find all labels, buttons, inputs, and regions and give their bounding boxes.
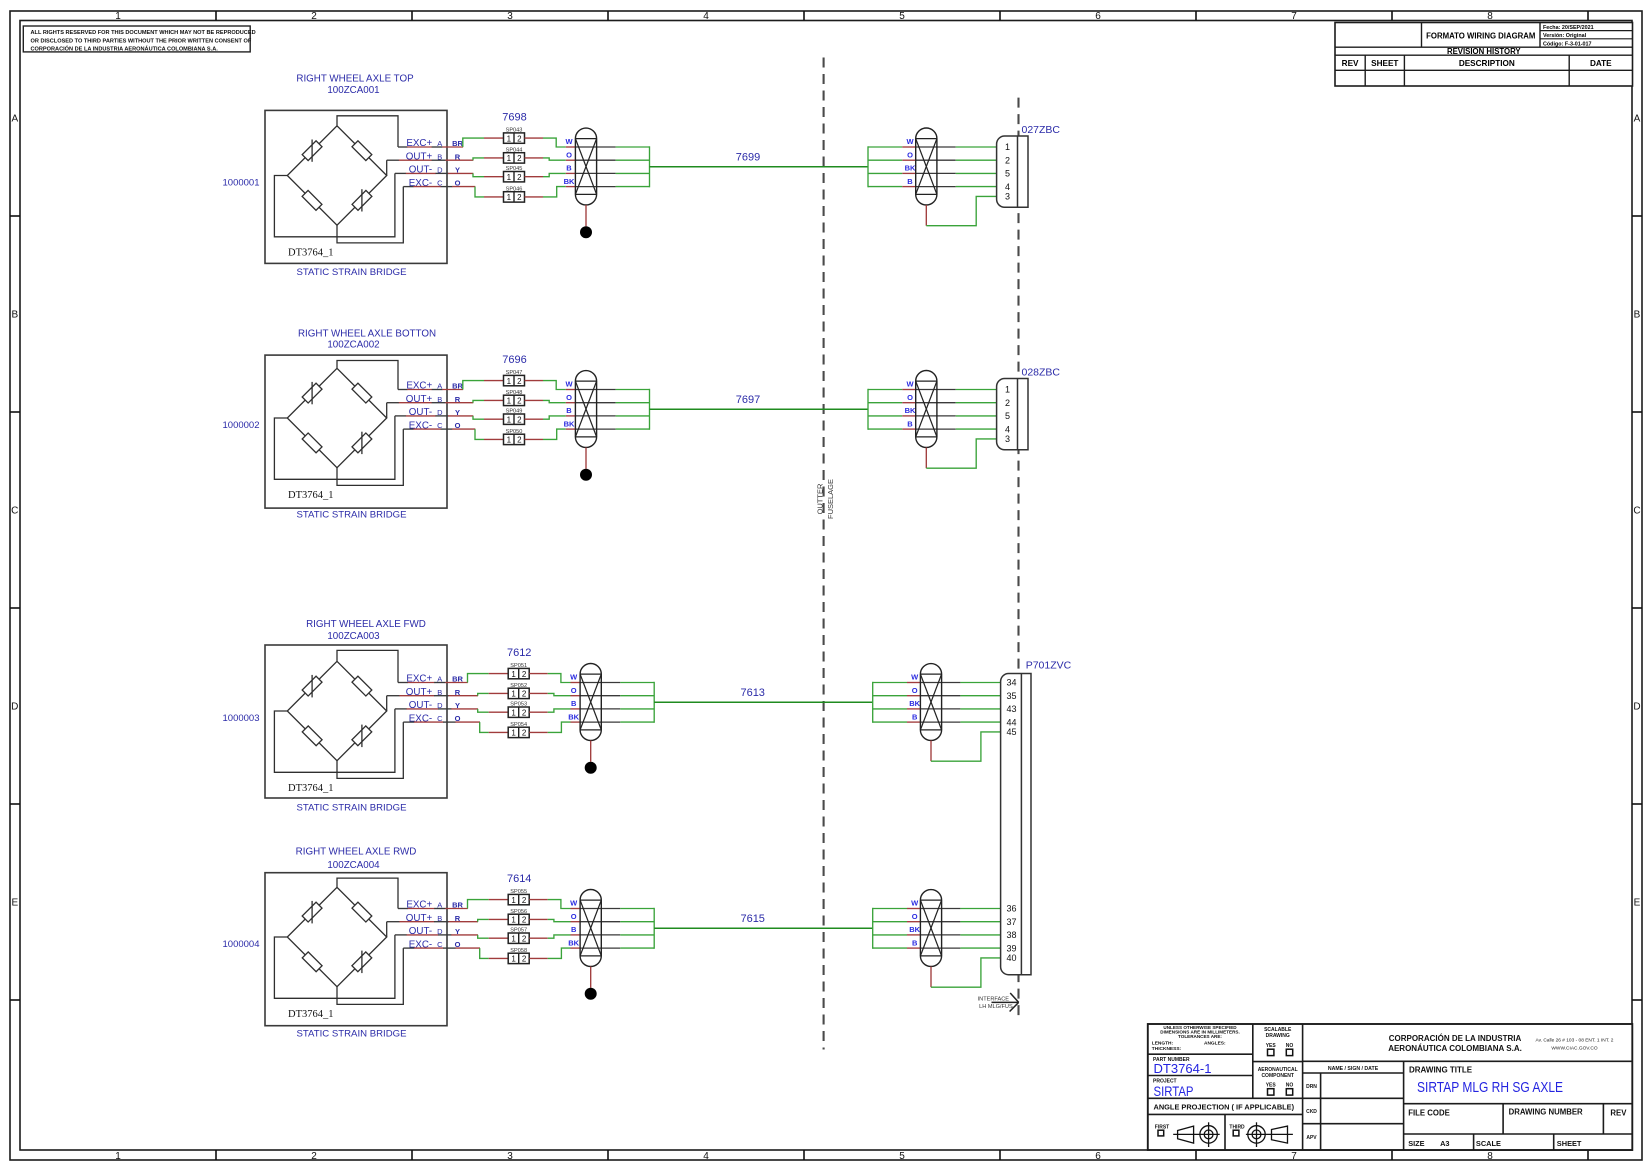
revision history table [1335, 23, 1633, 87]
svg-text:CKD: CKD [1306, 1109, 1317, 1115]
svg-text:028ZBC: 028ZBC [1022, 366, 1061, 378]
svg-text:7699: 7699 [736, 151, 760, 163]
svg-text:RIGHT WHEEL AXLE FWD: RIGHT WHEEL AXLE FWD [306, 619, 426, 630]
svg-text:5: 5 [899, 11, 905, 22]
svg-text:Versión: Original: Versión: Original [1543, 33, 1587, 39]
wheatstone bridge diamond [287, 368, 386, 467]
wire EXC+ pin A (BR) to splice SP055 [398, 900, 508, 909]
svg-text:2: 2 [311, 11, 317, 22]
svg-text:DRN: DRN [1306, 1084, 1317, 1090]
wire OUT+ from bridge right corner [386, 922, 388, 937]
strain gauge resistor R2 of 100ZCA002 [352, 383, 372, 403]
outer fuselage label [815, 479, 835, 519]
svg-text:7: 7 [1291, 11, 1297, 22]
equipment title 100ZCA002 [298, 329, 436, 351]
interface note LH MLG/FUS [978, 996, 1013, 1010]
splice SP046 [504, 186, 525, 202]
wire EXC+ from bridge top corner [337, 361, 398, 390]
wire EXC+ from bridge top corner [337, 878, 398, 908]
signal name labels EXC+/OUT+/OUT-/EXC- [406, 900, 464, 951]
wire B through left shield [580, 708, 654, 710]
svg-text:BK: BK [568, 938, 579, 947]
zone column numbers bottom [115, 1151, 1493, 1162]
svg-text:AERONÁUTICA COLOMBIANA S.A.: AERONÁUTICA COLOMBIANA S.A. [1388, 1044, 1522, 1053]
wire EXC- from bridge bottom corner [337, 429, 403, 485]
svg-text:B: B [571, 925, 577, 934]
svg-text:B: B [566, 406, 572, 415]
wire O through right shield to pin 2 [868, 159, 997, 161]
wire B through right shield to pin 4 [868, 186, 997, 188]
shield drain wire to ground [585, 205, 587, 226]
first angle projection symbol [1155, 1122, 1220, 1147]
strain gauge resistor R2 of 100ZCA004 [352, 902, 372, 922]
svg-text:100ZCA004: 100ZCA004 [327, 860, 380, 871]
svg-text:O: O [912, 912, 918, 921]
wire W through left shield [580, 682, 654, 684]
equipment title 100ZCA003 [306, 619, 426, 642]
svg-text:1: 1 [507, 173, 512, 182]
wire BK through right shield to pin 5 [868, 172, 997, 174]
wire W through right shield to pin 1 [868, 389, 997, 391]
svg-text:2: 2 [522, 955, 527, 964]
connector 028ZBC [997, 379, 1028, 450]
svg-text:SHEET: SHEET [1557, 1139, 1582, 1148]
svg-text:OUTTER: OUTTER [815, 483, 824, 514]
splice SP047 [504, 370, 525, 386]
wire splice SP046 to shield (BK) [525, 187, 576, 197]
svg-text:B: B [912, 938, 918, 947]
svg-text:1: 1 [511, 934, 516, 943]
wire colour labels at right shield [905, 380, 916, 429]
wire splice SP052 to shield (O) [529, 693, 580, 695]
svg-text:W: W [570, 673, 578, 682]
svg-text:1: 1 [507, 436, 512, 445]
svg-text:O: O [566, 393, 572, 402]
svg-text:DESCRIPTION: DESCRIPTION [1459, 59, 1515, 68]
svg-text:P701ZVC: P701ZVC [1026, 659, 1072, 671]
svg-text:DRAWING TITLE: DRAWING TITLE [1409, 1065, 1473, 1074]
wire O through left shield [580, 695, 654, 697]
svg-text:SIZE: SIZE [1408, 1139, 1424, 1148]
svg-text:6: 6 [1095, 1151, 1101, 1162]
strain gauge resistor R1 of 100ZCA002 [302, 382, 322, 404]
svg-text:2: 2 [1005, 398, 1010, 408]
svg-text:YES: YES [1266, 1082, 1277, 1088]
svg-text:SCALE: SCALE [1476, 1139, 1501, 1148]
cable shield symbol (right) of 7613 [920, 664, 941, 741]
wire W through right shield to pin 36 [873, 908, 1001, 910]
wire EXC+ from bridge top corner [337, 116, 398, 147]
wire colour labels at right shield [909, 673, 920, 722]
svg-text:5: 5 [899, 1151, 905, 1162]
svg-text:STATIC STRAIN BRIDGE: STATIC STRAIN BRIDGE [297, 267, 407, 278]
svg-text:2: 2 [517, 173, 522, 182]
cable bus and long wire 7699 [650, 146, 869, 187]
zone column ticks bottom [216, 1150, 1588, 1160]
svg-text:O: O [571, 912, 577, 921]
svg-text:1: 1 [115, 11, 121, 22]
wire B through left shield [575, 415, 649, 417]
strain bridge outline box (100ZCA004) [265, 873, 447, 1026]
svg-text:1: 1 [1005, 385, 1010, 395]
wire O through right shield to pin 37 [873, 921, 1001, 923]
svg-text:38: 38 [1007, 930, 1017, 940]
wire OUT+ from bridge right corner [386, 403, 388, 418]
wire BK through right shield to pin 38 [873, 934, 1001, 936]
pin numbers 36/37/38/39/40 [1007, 904, 1017, 963]
cable shield symbol (left) of 7697 [575, 371, 596, 448]
splice SP048 [504, 390, 525, 406]
svg-text:3: 3 [1005, 434, 1010, 444]
svg-text:OR DISCLOSED TO THIRD PARTIES: OR DISCLOSED TO THIRD PARTIES WITHOUT TH… [31, 39, 252, 45]
svg-text:E: E [1634, 898, 1641, 909]
svg-text:C: C [11, 506, 18, 517]
wire splice SP054 to shield (BK) [529, 722, 580, 732]
signal name labels EXC+/OUT+/OUT-/EXC- [406, 674, 464, 725]
svg-text:34: 34 [1007, 678, 1017, 688]
svg-text:CORPORACIÓN DE LA INDUSTRIA AE: CORPORACIÓN DE LA INDUSTRIA AERONÁUTICA … [31, 45, 219, 53]
svg-text:1: 1 [507, 193, 512, 202]
revision table texts [1342, 25, 1612, 68]
svg-text:1000001: 1000001 [223, 177, 260, 188]
wire B through left shield [575, 172, 649, 174]
svg-text:4: 4 [703, 11, 709, 22]
svg-text:1: 1 [511, 670, 516, 679]
svg-text:SIRTAP: SIRTAP [1154, 1083, 1194, 1099]
svg-text:4: 4 [1005, 424, 1010, 434]
wheatstone bridge diamond [287, 126, 386, 225]
aeronautical component cell [1258, 1067, 1298, 1095]
svg-text:DT3764_1: DT3764_1 [288, 490, 334, 501]
cable shield symbol (right) of 7699 [916, 128, 937, 205]
svg-text:D: D [11, 702, 18, 713]
splice SP052 [508, 683, 529, 699]
svg-text:LENGTH:: LENGTH: [1152, 1041, 1174, 1047]
svg-text:2: 2 [522, 670, 527, 679]
shield drain wire to pin 3 [926, 196, 996, 225]
wire BK through left shield [580, 947, 654, 949]
splice SP044 [504, 147, 525, 163]
file code / drawing number / rev [1408, 1108, 1627, 1118]
svg-text:7697: 7697 [736, 394, 760, 406]
svg-text:ALL RIGHTS RESERVED FOR THIS D: ALL RIGHTS RESERVED FOR THIS DOCUMENT WH… [31, 30, 256, 36]
strain gauge resistor R1 of 100ZCA001 [302, 140, 322, 162]
wire colour labels at left shield [568, 899, 579, 948]
wire BK through left shield [575, 428, 649, 430]
cable shield symbol (left) of 7699 [575, 128, 596, 205]
ground termination dot [585, 988, 597, 1000]
svg-text:FORMATO WIRING DIAGRAM: FORMATO WIRING DIAGRAM [1426, 31, 1535, 40]
svg-text:100ZCA001: 100ZCA001 [327, 85, 379, 96]
svg-text:Código: F-3-01-017: Código: F-3-01-017 [1543, 41, 1592, 47]
svg-text:W: W [906, 137, 914, 146]
svg-text:B: B [1634, 310, 1641, 321]
svg-text:Fecha: 20/SEP/2021: Fecha: 20/SEP/2021 [1543, 25, 1594, 31]
wire splice SP050 to shield (BK) [525, 429, 576, 439]
wheatstone bridge diamond [287, 887, 386, 986]
svg-text:O: O [907, 393, 913, 402]
wire EXC- pin C (O) to splice SP058 [403, 948, 508, 958]
svg-text:LH MLG/FUS: LH MLG/FUS [979, 1004, 1013, 1010]
strain gauge resistor R2 of 100ZCA001 [352, 141, 372, 161]
wire EXC- pin C (O) to splice SP054 [403, 722, 508, 732]
svg-text:1000003: 1000003 [223, 713, 260, 724]
size / scale / sheet [1408, 1139, 1582, 1148]
svg-text:COMPONENT: COMPONENT [1261, 1073, 1294, 1079]
svg-text:45: 45 [1007, 727, 1017, 737]
svg-text:BK: BK [905, 164, 916, 173]
splice SP055 [508, 889, 529, 905]
wire B through right shield to pin 39 [873, 947, 1001, 949]
wire OUT+ pin B (R) to splice SP052 [387, 693, 509, 695]
svg-text:B: B [907, 419, 913, 428]
wire W through right shield to pin 1 [868, 146, 997, 148]
svg-text:APV: APV [1306, 1135, 1317, 1141]
strain gauge resistor R4 of 100ZCA002 [352, 432, 372, 454]
wire OUT- pin D (Y) to splice SP053 [395, 709, 509, 712]
wire splice SP051 to shield (W) [529, 674, 580, 683]
shield drain wire to pin 45 [931, 732, 1001, 761]
splice SP045 [504, 166, 525, 182]
splice SP050 [504, 429, 525, 445]
svg-text:W: W [911, 899, 919, 908]
svg-text:FIRST: FIRST [1155, 1124, 1169, 1130]
svg-text:ANGLE PROJECTION ( IF APPLICAB: ANGLE PROJECTION ( IF APPLICABLE) [1154, 1103, 1295, 1112]
strain gauge resistor R1 of 100ZCA004 [302, 901, 322, 924]
svg-text:DT3764-1: DT3764-1 [1154, 1061, 1212, 1076]
svg-text:STATIC STRAIN BRIDGE: STATIC STRAIN BRIDGE [297, 509, 407, 520]
zone row letters right [1633, 114, 1640, 909]
drawing title cell [1409, 1065, 1563, 1096]
svg-text:B: B [571, 699, 577, 708]
svg-text:BK: BK [909, 925, 920, 934]
svg-text:1: 1 [511, 690, 516, 699]
svg-text:1: 1 [511, 955, 516, 964]
shield drain wire to pin 3 [926, 439, 996, 468]
wire EXC+ pin A (BR) to splice SP051 [398, 674, 508, 683]
svg-text:1: 1 [1005, 142, 1010, 152]
svg-text:O: O [912, 686, 918, 695]
wire colour labels at left shield [564, 137, 575, 186]
svg-text:THIRD: THIRD [1229, 1124, 1245, 1130]
svg-text:7696: 7696 [502, 354, 526, 366]
wire splice SP055 to shield (W) [529, 900, 580, 909]
svg-text:5: 5 [1005, 169, 1010, 179]
wire splice SP058 to shield (BK) [529, 948, 580, 958]
svg-text:35: 35 [1007, 691, 1017, 701]
svg-text:7613: 7613 [740, 687, 764, 699]
svg-text:1: 1 [511, 729, 516, 738]
svg-text:1: 1 [507, 415, 512, 424]
wire O through left shield [580, 921, 654, 923]
svg-text:DATE: DATE [1590, 59, 1612, 68]
scalable drawing cell [1264, 1027, 1293, 1055]
shield drain wire to ground [590, 741, 592, 762]
svg-text:7: 7 [1291, 1151, 1297, 1162]
shield drain wire to ground [585, 448, 587, 469]
svg-text:1: 1 [507, 134, 512, 143]
wire splice SP057 to shield (B) [529, 935, 580, 938]
svg-text:100ZCA002: 100ZCA002 [327, 339, 379, 350]
svg-text:FUSELAGE: FUSELAGE [826, 479, 835, 519]
svg-text:2: 2 [522, 690, 527, 699]
wire OUT- pin D (Y) to splice SP049 [395, 416, 504, 419]
svg-text:1: 1 [507, 154, 512, 163]
svg-text:2: 2 [517, 377, 522, 386]
svg-text:A: A [11, 114, 18, 125]
svg-text:D: D [1633, 702, 1640, 713]
svg-text:B: B [912, 712, 918, 721]
wire B through right shield to pin 44 [873, 721, 1001, 723]
svg-text:W: W [565, 380, 573, 389]
svg-text:NO: NO [1286, 1082, 1294, 1088]
svg-text:4: 4 [1005, 182, 1010, 192]
svg-text:A: A [1634, 114, 1641, 125]
cable shield symbol (left) of 7615 [580, 890, 601, 967]
wire OUT+ pin B (R) to splice SP044 [387, 158, 504, 160]
svg-text:43: 43 [1007, 704, 1017, 714]
strain gauge resistor R4 of 100ZCA001 [352, 189, 372, 211]
wire splice SP043 to shield (W) [525, 138, 576, 147]
svg-text:2: 2 [517, 193, 522, 202]
strain gauge resistor R1 of 100ZCA003 [302, 675, 322, 698]
wire BK through right shield to pin 5 [868, 415, 997, 417]
wire O through left shield [575, 159, 649, 161]
wire EXC- pin C (O) to splice SP046 [403, 187, 503, 197]
svg-text:C: C [1633, 506, 1640, 517]
svg-text:2: 2 [311, 1151, 317, 1162]
svg-text:BK: BK [568, 712, 579, 721]
svg-text:7612: 7612 [507, 647, 531, 659]
svg-text:B: B [11, 310, 18, 321]
svg-text:REV: REV [1342, 59, 1359, 68]
wire EXC- from bridge bottom corner [337, 722, 403, 778]
svg-text:2: 2 [517, 436, 522, 445]
svg-text:1000004: 1000004 [223, 939, 260, 950]
wire OUT- pin D (Y) to splice SP045 [395, 173, 504, 176]
wire BK through left shield [575, 186, 649, 188]
svg-text:2: 2 [1005, 155, 1010, 165]
zone row ticks right [1632, 216, 1642, 1000]
svg-text:2: 2 [522, 916, 527, 925]
wire splice SP048 to shield (O) [525, 400, 576, 402]
svg-text:DRAWING: DRAWING [1266, 1033, 1290, 1039]
svg-text:STATIC STRAIN BRIDGE: STATIC STRAIN BRIDGE [297, 1028, 407, 1039]
wire BK through right shield to pin 43 [873, 708, 1001, 710]
svg-text:DRAWING NUMBER: DRAWING NUMBER [1509, 1108, 1583, 1117]
cable bus and long wire 7613 [654, 682, 873, 723]
svg-text:027ZBC: 027ZBC [1022, 124, 1061, 136]
svg-text:8: 8 [1487, 1151, 1493, 1162]
svg-text:1000002: 1000002 [223, 420, 260, 431]
outer fuselage dashed line (left) [823, 58, 825, 1050]
svg-text:1: 1 [511, 708, 516, 717]
wire colour labels at right shield [905, 137, 916, 186]
svg-text:40: 40 [1007, 953, 1017, 963]
svg-text:1: 1 [511, 916, 516, 925]
svg-text:REVISION HISTORY: REVISION HISTORY [1447, 47, 1521, 56]
wire splice SP056 to shield (O) [529, 919, 580, 921]
wire splice SP045 to shield (B) [525, 173, 576, 176]
splice SP054 [508, 722, 529, 738]
wire EXC- from bridge bottom corner [337, 948, 403, 1004]
wire OUT- pin D (Y) to splice SP057 [395, 935, 509, 938]
svg-text:100ZCA003: 100ZCA003 [327, 631, 380, 642]
strain gauge resistor R4 of 100ZCA003 [352, 725, 372, 748]
cable shield symbol (right) of 7615 [920, 890, 941, 967]
svg-text:4: 4 [703, 1151, 709, 1162]
svg-text:2: 2 [517, 397, 522, 406]
splice SP049 [504, 409, 525, 425]
strain gauge resistor R3 of 100ZCA002 [302, 433, 322, 453]
wire OUT- from bridge left corner [274, 935, 395, 998]
third angle projection symbol [1229, 1122, 1293, 1147]
svg-text:Av. Calle 26 # 103 - 08 ENT. 1: Av. Calle 26 # 103 - 08 ENT. 1 INT. 2 [1536, 1038, 1614, 1044]
wire O through right shield to pin 35 [873, 695, 1001, 697]
interface dashed line (right) [1017, 98, 1019, 1016]
svg-text:B: B [566, 164, 572, 173]
interface arrow [992, 993, 1019, 1012]
wire W through left shield [575, 146, 649, 148]
svg-text:YES: YES [1266, 1043, 1277, 1049]
strain gauge resistor R4 of 100ZCA004 [352, 951, 372, 974]
svg-text:BK: BK [909, 699, 920, 708]
svg-text:2: 2 [522, 934, 527, 943]
svg-text:37: 37 [1007, 917, 1017, 927]
wire OUT+ from bridge right corner [386, 696, 388, 711]
wire W through left shield [575, 389, 649, 391]
ground termination dot [580, 469, 592, 481]
cable bus and long wire 7615 [654, 908, 873, 949]
svg-text:SHEET: SHEET [1371, 59, 1398, 68]
svg-text:3: 3 [507, 11, 513, 22]
zone column numbers top [115, 11, 1493, 22]
wire B through right shield to pin 4 [868, 428, 997, 430]
wire colour labels at left shield [568, 673, 579, 722]
wheatstone bridge diamond [287, 661, 386, 760]
wire OUT+ pin B (R) to splice SP048 [387, 400, 504, 402]
svg-text:6: 6 [1095, 11, 1101, 22]
title block texts left [1152, 1025, 1295, 1112]
svg-text:8: 8 [1487, 11, 1493, 22]
svg-text:44: 44 [1007, 717, 1017, 727]
svg-text:1: 1 [511, 896, 516, 905]
wire OUT- from bridge left corner [274, 709, 395, 772]
svg-text:FILE CODE: FILE CODE [1408, 1108, 1450, 1117]
svg-text:BK: BK [905, 406, 916, 415]
svg-text:O: O [907, 150, 913, 159]
strain gauge resistor R3 of 100ZCA001 [302, 190, 322, 210]
wire splice SP049 to shield (B) [525, 416, 576, 419]
svg-text:5: 5 [1005, 411, 1010, 421]
cable shield symbol (right) of 7697 [916, 371, 937, 448]
svg-text:7615: 7615 [740, 913, 764, 925]
svg-text:ANGLES:: ANGLES: [1204, 1041, 1226, 1047]
svg-text:2: 2 [522, 729, 527, 738]
svg-text:1: 1 [507, 377, 512, 386]
wire O through right shield to pin 2 [868, 402, 997, 404]
svg-text:RIGHT WHEEL AXLE RWD: RIGHT WHEEL AXLE RWD [296, 847, 417, 858]
svg-text:REV: REV [1610, 1108, 1627, 1117]
wire OUT- from bridge left corner [274, 173, 395, 236]
svg-text:W: W [911, 673, 919, 682]
svg-text:B: B [907, 177, 913, 186]
svg-text:RIGHT WHEEL AXLE TOP: RIGHT WHEEL AXLE TOP [296, 74, 414, 85]
wire colour labels at right shield [909, 899, 920, 948]
wire OUT+ pin B (R) to splice SP056 [387, 919, 509, 921]
pin numbers 34/35/43/44/45 [1007, 678, 1017, 737]
wire W through right shield to pin 34 [873, 682, 1001, 684]
